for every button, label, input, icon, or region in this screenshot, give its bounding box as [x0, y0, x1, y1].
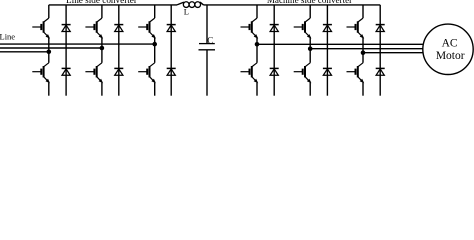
wire: machine side leg 2 collector drop from bus	[309, 5, 311, 18]
wire: line phase a (top)	[0, 43, 155, 45]
wire: machine side leg 1 midpoint conductor	[256, 37, 258, 62]
wire: machine side freewheel diode column 2	[326, 5, 328, 96]
wire: machine side freewheel diode column 1	[273, 5, 275, 96]
wire: line side leg 2 collector drop from bus	[101, 5, 103, 18]
transistor: machine side upper IGBT leg 3	[347, 18, 365, 38]
svg-text:Line side converter: Line side converter	[66, 0, 137, 5]
wire: machine side leg 2 emitter to bottom rail	[309, 83, 311, 96]
transistor: machine side upper IGBT leg 1	[241, 18, 259, 38]
transistor: machine side lower IGBT leg 3	[347, 63, 365, 84]
wire: line side leg 1 collector drop from bus	[48, 5, 50, 18]
wire: line side leg 3 emitter to bottom rail	[154, 83, 156, 96]
wire: line side leg 1 midpoint conductor	[48, 37, 50, 62]
diode: machine side upper freewheel diode leg 2	[323, 25, 332, 32]
wire: line side leg 3 collector drop from bus	[154, 5, 156, 18]
wire: machine side leg 1 collector drop from bus	[256, 5, 258, 18]
wire: motor phase c (bottom)	[363, 52, 424, 54]
transistor: line side lower IGBT leg 1	[32, 63, 50, 84]
node: motor phase a junction leg 1	[255, 42, 260, 47]
wire: line side leg 2 emitter to bottom rail	[101, 83, 103, 96]
transistor: line side upper IGBT leg 2	[85, 18, 103, 38]
wire: motor phase b (middle)	[310, 48, 423, 50]
wire: line phase c (bottom)	[0, 51, 49, 53]
diode: line side lower freewheel diode leg 3	[167, 68, 176, 75]
wire: line side leg 2 midpoint conductor	[101, 37, 103, 62]
diode: machine side lower freewheel diode leg 2	[323, 68, 332, 75]
node: motor phase c junction leg 3	[361, 50, 366, 55]
diode: line side upper freewheel diode leg 3	[167, 25, 176, 32]
diode: line side lower freewheel diode leg 2	[114, 68, 123, 75]
wire: machine side leg 1 emitter to bottom rail	[256, 83, 258, 96]
wire: positive DC bus, line side segment	[49, 4, 177, 6]
wire: line phase b (middle)	[0, 47, 102, 49]
wire: machine side leg 2 midpoint conductor	[309, 37, 311, 62]
svg-text:C: C	[207, 35, 213, 45]
wire: line side leg 1 emitter to bottom rail	[48, 83, 50, 96]
wire: line side freewheel diode column 1	[65, 5, 67, 96]
transistor: line side lower IGBT leg 2	[85, 63, 103, 84]
node: line phase c junction leg 1	[47, 50, 52, 55]
wire: line side freewheel diode column 3	[170, 5, 172, 96]
svg-text:L: L	[184, 7, 189, 17]
node: line phase a junction leg 3	[152, 42, 157, 47]
capacitor C (DC link)	[199, 43, 215, 45]
wire: machine side leg 3 emitter to bottom rail	[362, 83, 364, 96]
diode: machine side lower freewheel diode leg 1	[270, 68, 279, 75]
wire: machine side freewheel diode column 3	[379, 5, 381, 96]
diode: machine side upper freewheel diode leg 1	[270, 25, 279, 32]
wire: DC link capacitor top stub	[206, 5, 208, 44]
wire: line side leg 3 midpoint conductor	[154, 37, 156, 62]
diode: line side upper freewheel diode leg 2	[114, 25, 123, 32]
node: motor phase b junction leg 2	[308, 46, 313, 51]
diode: line side lower freewheel diode leg 1	[62, 68, 71, 75]
transistor: line side upper IGBT leg 3	[138, 18, 156, 38]
svg-text:Machine side converter: Machine side converter	[267, 0, 352, 5]
wire: machine side leg 3 collector drop from bus	[362, 5, 364, 18]
wire: positive DC bus, machine side segment	[204, 4, 381, 6]
wire: DC link capacitor bottom stub	[206, 50, 208, 96]
svg-text:Motor: Motor	[436, 50, 465, 62]
transistor: line side upper IGBT leg 1	[32, 18, 50, 38]
transistor: machine side lower IGBT leg 1	[241, 63, 259, 84]
wire: motor phase a (top)	[257, 43, 424, 45]
transistor: machine side lower IGBT leg 2	[294, 63, 312, 84]
wire: machine side leg 3 midpoint conductor	[362, 37, 364, 62]
svg-text:AC: AC	[442, 38, 458, 50]
transistor: machine side upper IGBT leg 2	[294, 18, 312, 38]
svg-text:Line: Line	[0, 31, 15, 41]
wire: line side freewheel diode column 2	[118, 5, 120, 96]
diode: line side upper freewheel diode leg 1	[62, 25, 71, 32]
transistor: line side lower IGBT leg 3	[138, 63, 156, 84]
motor: AC motor symbol	[423, 24, 473, 74]
inductor L (DC link choke)	[177, 2, 184, 5]
diode: machine side lower freewheel diode leg 3	[376, 68, 385, 75]
diode: machine side upper freewheel diode leg 3	[376, 25, 385, 32]
node: line phase b junction leg 2	[100, 46, 105, 51]
